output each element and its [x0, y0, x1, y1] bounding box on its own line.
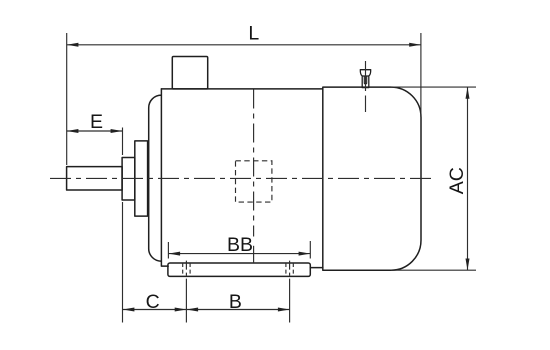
left foot hole centerline	[185, 261, 187, 286]
rear housing	[323, 87, 421, 270]
svg-text:BB: BB	[227, 234, 253, 256]
foot to housing connector	[310, 267, 323, 269]
AC bottom arrow	[466, 259, 470, 271]
front end shield	[149, 89, 169, 266]
C left extension line	[122, 202, 124, 323]
AC bottom extension line	[391, 269, 476, 271]
B right extension line	[289, 286, 291, 323]
dashed frame hole square	[236, 161, 272, 202]
foot pad	[168, 263, 310, 276]
terminal box	[172, 57, 207, 89]
BB left extension line	[167, 242, 169, 259]
C left arrow	[123, 308, 135, 312]
shaft	[67, 167, 123, 190]
left foot hole dashed edges	[183, 263, 190, 276]
bearing boss ring	[135, 141, 148, 216]
BB left arrow	[168, 252, 180, 256]
L right extension line	[420, 33, 422, 117]
C right arrow	[175, 308, 187, 312]
right foot hole centerline	[289, 261, 291, 286]
horizontal centerline	[50, 177, 432, 179]
E right arrow	[111, 129, 123, 133]
shaft shoulder ring	[122, 158, 135, 201]
E left arrow	[67, 129, 79, 133]
L left extension line	[66, 33, 68, 165]
svg-text:L: L	[248, 23, 259, 45]
BB dimension line	[168, 253, 310, 255]
E dimension line	[67, 130, 123, 132]
AC top arrow	[466, 87, 470, 99]
B right arrow	[278, 308, 290, 312]
eyebolt centerline	[365, 61, 367, 112]
svg-text:C: C	[146, 291, 160, 313]
motor body top	[161, 88, 322, 90]
L right arrow	[409, 43, 421, 47]
BB right arrow	[299, 252, 311, 256]
vertical centerline of frame hole	[253, 90, 255, 237]
svg-text:B: B	[229, 291, 242, 313]
L dimension line	[67, 44, 421, 46]
E right extension line	[122, 128, 124, 156]
AC top extension line	[391, 86, 476, 88]
BB right extension line	[309, 241, 311, 259]
svg-text:E: E	[90, 111, 103, 133]
B left arrow	[186, 308, 198, 312]
L left arrow	[67, 43, 79, 47]
right foot hole dashed edges	[286, 263, 293, 276]
B mid extension line	[185, 286, 187, 323]
C and B dimension line	[123, 309, 290, 311]
svg-text:AC: AC	[446, 167, 468, 194]
AC dimension line	[467, 87, 469, 270]
eyebolt	[360, 70, 370, 88]
